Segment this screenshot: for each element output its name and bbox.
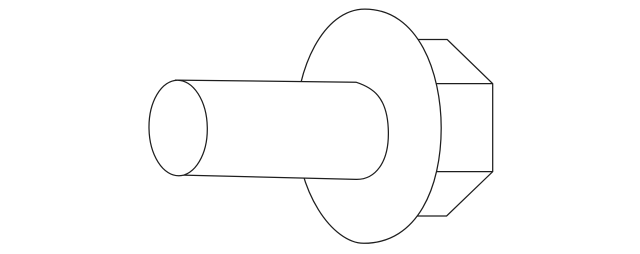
shaft end ellipse (left cap) <box>148 80 208 177</box>
hex facet edge upper <box>430 83 492 85</box>
hex head outline (drawn behind flange) <box>413 40 492 216</box>
bolt shaft body fill (covers flange arc behind shaft) <box>175 80 388 179</box>
bolt shaft outline: top line, right rounded cap, bottom line <box>175 80 388 179</box>
washer flange (large ellipse) <box>296 9 441 243</box>
hex facet edge lower <box>430 171 492 173</box>
